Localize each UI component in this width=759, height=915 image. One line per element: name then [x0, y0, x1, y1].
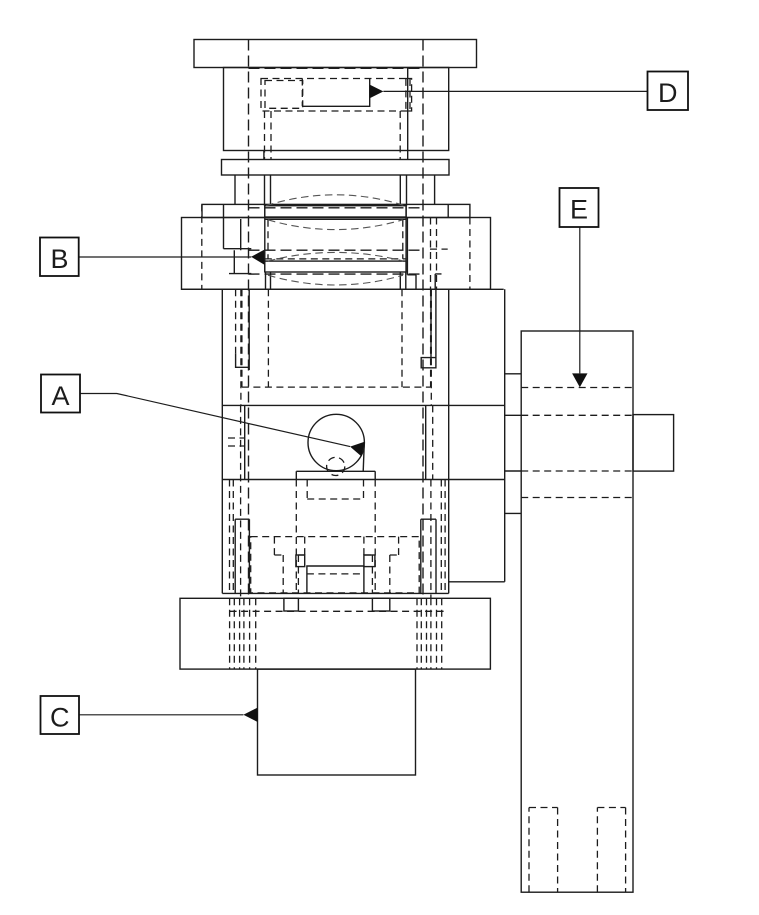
base flange hidden verticals left [230, 598, 256, 669]
lens cell wall right [405, 206, 407, 272]
arrow D [370, 85, 384, 99]
hidden cavity mid body [242, 289, 431, 387]
bridge line 2 [505, 414, 522, 416]
lens arc 4 [268, 275, 403, 285]
mid body left wall [221, 289, 223, 593]
hidden stud wall right2 [430, 289, 432, 405]
leader C line [79, 714, 243, 716]
neck outer wall right [434, 175, 436, 204]
hidden bore walls mid body [268, 289, 402, 387]
cartridge outline solid part [302, 79, 369, 107]
hidden bore centerline left [248, 40, 250, 599]
center block foot right [364, 555, 375, 567]
right arm hidden line 2 [521, 414, 633, 416]
upper body [224, 68, 449, 151]
hidden bore centerline right [422, 40, 424, 599]
hidden circle small [327, 457, 345, 475]
arrow E [572, 373, 587, 387]
hidden line y208 [249, 207, 424, 209]
hidden T block right [364, 537, 399, 593]
hidden inner box left [265, 81, 303, 109]
right arm hidden line 4 [521, 497, 633, 499]
hidden bore walls upper body [265, 111, 401, 160]
flange internal step left [224, 204, 252, 273]
hidden center block line [307, 573, 364, 575]
svg-text:A: A [51, 381, 69, 411]
lower column right [421, 519, 436, 593]
label box E [560, 188, 599, 227]
hidden pedestal walls [296, 480, 375, 593]
top flange [194, 40, 477, 68]
main flange ring [182, 218, 491, 290]
hidden walls above base left [230, 480, 234, 594]
center block [307, 566, 364, 593]
label box A [41, 375, 80, 413]
clamp step inner line right [447, 204, 449, 217]
hidden line under flange [249, 67, 424, 69]
right arm slot right [597, 808, 625, 893]
svg-text:C: C [50, 703, 70, 733]
stud hook left [236, 289, 250, 370]
base notch left [284, 598, 299, 611]
bridge line 3 [505, 470, 522, 472]
upper body inner wall [407, 68, 409, 160]
svg-text:E: E [570, 195, 588, 225]
hidden bore right lower [430, 480, 432, 599]
bridge line 1 [505, 373, 522, 375]
neck inner walls [265, 175, 407, 206]
neck outer wall left [234, 175, 236, 204]
arrow C [243, 708, 257, 722]
lens cell wall left [264, 206, 266, 272]
edge below arrow A [363, 443, 364, 472]
arrow A [350, 442, 365, 457]
bottom boss [258, 669, 416, 775]
spacer plate [222, 160, 450, 176]
base flange [180, 598, 490, 669]
label box D [648, 72, 689, 111]
leader B line [79, 256, 252, 258]
carriage band inner wall left [244, 405, 246, 479]
mid body divider line [222, 404, 504, 406]
base flange hidden line [230, 610, 444, 612]
clamp step block [202, 204, 470, 217]
base notch right [372, 598, 389, 611]
hidden stud wall left [235, 289, 237, 353]
hidden lower cavity [251, 537, 420, 593]
hidden flange wall left [201, 204, 203, 289]
right extension bottom [449, 581, 505, 583]
hidden inner box center left wall [301, 79, 303, 107]
hidden pedestal pocket [307, 480, 363, 500]
leader A line [80, 394, 350, 447]
hidden T block left [274, 537, 304, 593]
retainer band A [265, 206, 406, 217]
mid body right wall [448, 289, 450, 593]
label box C [41, 696, 80, 734]
leader E line [579, 227, 581, 373]
hidden line y250 [249, 249, 424, 251]
right arm lug [633, 415, 674, 472]
hidden cavity rect top [261, 79, 410, 112]
hidden notch circle band [228, 438, 245, 446]
lens arc 3 [268, 252, 403, 261]
gap crossing wall [263, 151, 265, 160]
hidden walls above base right [441, 480, 445, 594]
right extension wall [504, 289, 506, 582]
hidden stud wall left2 [240, 289, 242, 405]
hidden lens side walls [268, 220, 403, 259]
right arm hidden line 3 [521, 470, 633, 472]
arrow B [251, 250, 264, 265]
hidden narrow box right [406, 79, 412, 112]
lens cell wall extensions to body [266, 272, 406, 289]
lens arc 2 [268, 220, 403, 230]
center block foot left [296, 555, 305, 567]
right arm hidden line 1 [521, 387, 633, 389]
label box B [40, 238, 79, 277]
hidden wall circle band right [432, 405, 434, 479]
right arm body [521, 331, 633, 892]
pedestal [296, 471, 375, 479]
bridge line 4 [505, 512, 522, 514]
leader D line [383, 90, 647, 92]
mid body top line [182, 288, 504, 290]
svg-text:B: B [50, 244, 68, 274]
right arm slot left [529, 808, 558, 893]
svg-text:D: D [658, 78, 678, 108]
band A lower line [265, 218, 406, 220]
carriage band inner wall right [425, 405, 427, 479]
hidden wall circle band left [240, 405, 242, 598]
hidden line y274 [249, 273, 424, 275]
hidden flange lines right [430, 218, 448, 290]
retainer band B [265, 261, 406, 272]
body bottom line [222, 592, 448, 594]
lens arc 1 [266, 195, 405, 206]
hidden line y259 [265, 258, 406, 260]
lower column left [235, 519, 249, 593]
hidden flange wall right [469, 218, 471, 290]
base flange hidden verticals right [417, 598, 442, 669]
flange internal step right [407, 218, 441, 290]
stud hook right [421, 289, 436, 368]
carriage band bottom line [222, 479, 504, 481]
bearing circle [308, 414, 364, 470]
